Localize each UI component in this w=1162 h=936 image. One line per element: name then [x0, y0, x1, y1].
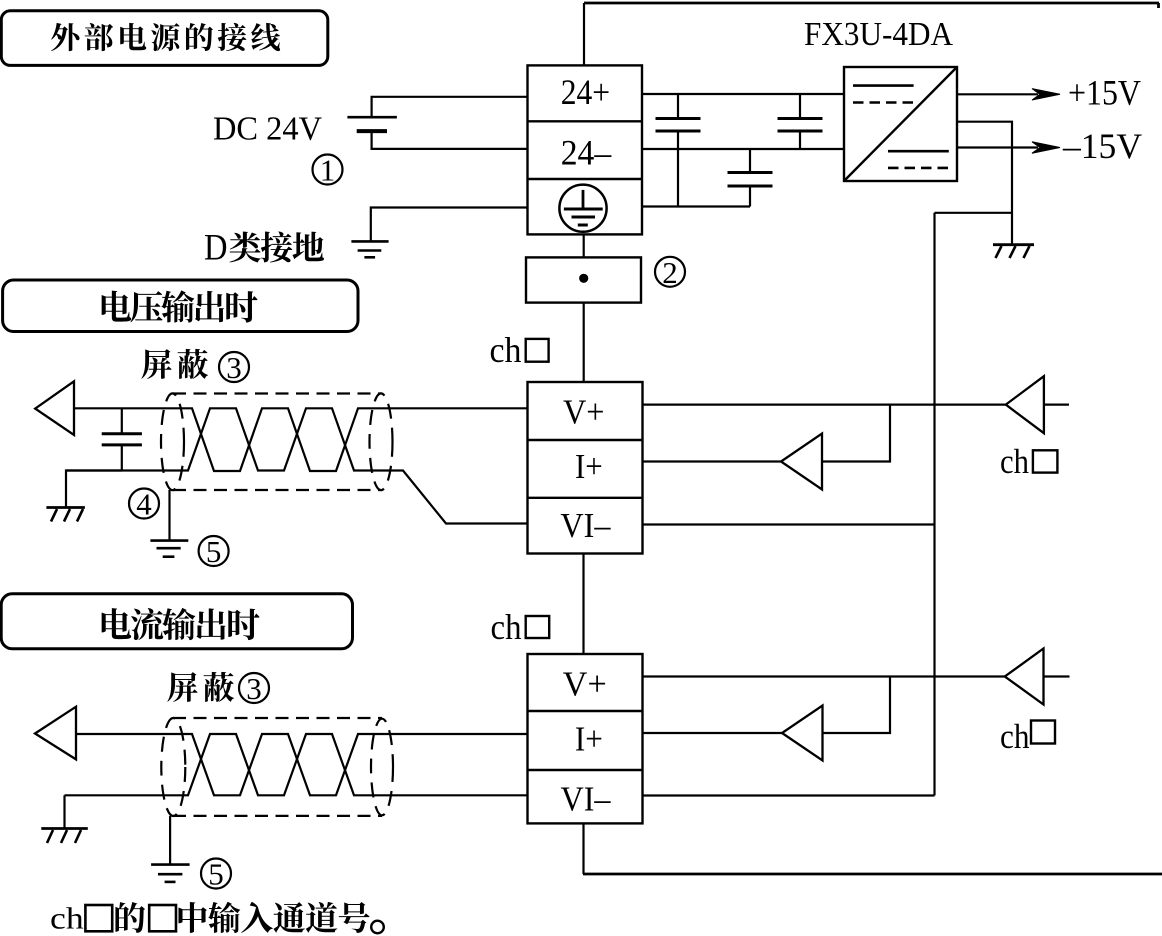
wire VI- to analog ground bus top section	[643, 523, 935, 525]
circled 2	[655, 257, 685, 287]
svg-text:24–: 24–	[561, 133, 612, 173]
capacitor C4 bottom lead	[121, 445, 123, 471]
title box 电压输出时 (voltage output)	[3, 280, 358, 332]
ground symbol GND-D line2	[358, 249, 382, 252]
svg-text:5: 5	[208, 857, 224, 892]
svg-text:DC 24V: DC 24V	[213, 111, 322, 148]
wire VI- to analog ground bus bottom section	[643, 794, 935, 796]
amplifier A3 triangle	[781, 434, 822, 490]
earth ground E1 line1	[150, 539, 188, 542]
footnote square 1	[85, 905, 112, 931]
svg-text:3: 3	[246, 671, 262, 706]
arrowhead -15V	[1032, 142, 1060, 153]
wire 24- to converter	[642, 148, 844, 150]
svg-text:I+: I+	[575, 721, 603, 759]
svg-text:ch: ch	[490, 330, 522, 370]
output terminal block 1 outline	[528, 382, 643, 554]
amplifier A5 input stub	[1044, 675, 1070, 677]
chassis ground symbol CG2 hatch2	[64, 509, 70, 522]
square box ch2	[1033, 450, 1058, 472]
output terminal block 2 outline	[528, 654, 643, 823]
footnote square 2	[149, 905, 176, 931]
svg-text:1: 1	[320, 153, 336, 188]
capacitor C1 plate1	[656, 117, 701, 120]
svg-text:ch: ch	[1000, 717, 1030, 756]
shield cable S2 dashed top	[173, 717, 382, 719]
DC/DC converter U1 output dashed line	[888, 167, 949, 170]
svg-text:D: D	[204, 227, 228, 268]
amplifier A2 triangle	[1006, 376, 1044, 433]
DC/DC converter U1 box	[844, 67, 957, 181]
wire V+ to ch amplifier top	[643, 404, 1006, 406]
capacitor C2 plate1	[778, 117, 823, 120]
shield cable S1 left ellipse	[161, 393, 184, 490]
amplifier A1 triangle	[35, 381, 74, 435]
title box 外部电源的接线 (external power wiring)	[1, 11, 328, 66]
svg-text:VI–: VI–	[560, 507, 611, 545]
label 电流输出时	[102, 608, 260, 640]
label 屏蔽 (shield) top	[141, 349, 208, 379]
svg-text:ch: ch	[1000, 442, 1029, 481]
block2 divider 1	[528, 710, 643, 712]
footnote 中输入通道号	[178, 902, 369, 933]
svg-text:5: 5	[206, 534, 222, 569]
wire ground terminal to earth	[371, 208, 528, 242]
chassis ground symbol CG1 hatch2	[1010, 246, 1016, 258]
amplifier A5 triangle	[1005, 649, 1044, 705]
svg-text:4: 4	[136, 487, 152, 522]
wire battery- to 24- terminal	[372, 131, 528, 149]
chassis ground symbol CG3 bar	[41, 827, 88, 830]
wire shield drain to chassis ground	[66, 471, 122, 508]
block2 divider 2	[528, 769, 643, 771]
wire +15V output	[957, 93, 1038, 95]
label 外部电源的接线	[51, 23, 280, 51]
svg-text:ch: ch	[491, 607, 522, 647]
DC/DC converter U1 input dashed line	[853, 101, 914, 104]
circled 4	[129, 489, 159, 519]
chassis ground symbol CG3 hatch1	[47, 830, 53, 843]
wire block1 to block2	[582, 554, 584, 656]
svg-text:VI–: VI–	[561, 781, 612, 819]
svg-text:V+: V+	[563, 394, 605, 432]
wire shield to earth ground top section	[168, 490, 170, 540]
FX3U-4DA module frame top edge	[584, 2, 1159, 5]
block1 divider 1	[528, 439, 643, 441]
circled 5 top	[199, 536, 229, 566]
ground symbol GND-D line1	[351, 240, 388, 243]
shield cable S1 right ellipse	[370, 393, 393, 490]
wire frame to 24+ block top	[583, 3, 585, 65]
DC/DC converter U1 diagonal	[844, 67, 957, 181]
protective earth terminal symbol circle	[559, 185, 606, 232]
amplifier A6 triangle	[782, 706, 823, 761]
filter box dot	[579, 274, 588, 283]
chassis ground symbol CG1 bar	[993, 243, 1034, 246]
capacitor C3 plate2	[728, 185, 773, 188]
wire block2 to frame bottom	[582, 823, 584, 874]
wire to chassis ground bottom section	[63, 795, 65, 828]
protective earth symbol bar1	[564, 208, 603, 211]
earth ground E2 line2	[158, 873, 182, 876]
footnote full stop	[371, 921, 384, 934]
DC/DC converter U1 output solid line	[888, 150, 949, 153]
analog ground bus vertical	[933, 213, 935, 796]
circled 3 bottom	[239, 673, 269, 703]
chassis ground symbol CG3 hatch3	[75, 830, 81, 843]
earth ground E1 line2	[157, 547, 181, 550]
svg-text:24+: 24+	[561, 72, 610, 112]
shield cable S1 dashed top	[173, 392, 381, 394]
wire shield to earth ground bottom section	[169, 816, 171, 864]
footnote 的	[115, 902, 145, 933]
capacitor C1 bottom lead	[677, 131, 679, 207]
svg-text:–15V: –15V	[1062, 126, 1142, 166]
twisted pair wire A bottom section	[76, 734, 528, 795]
capacitor C2 bottom lead	[799, 131, 801, 149]
filter box	[526, 257, 641, 302]
title box 电流输出时 (current output)	[1, 594, 352, 649]
wire converter to chassis ground	[957, 122, 1012, 245]
wire 24+ to converter	[642, 93, 844, 95]
svg-text:3: 3	[226, 350, 242, 385]
shield cable S2 right ellipse	[371, 719, 393, 816]
wire analog ground bus tap	[935, 212, 1013, 214]
chassis ground symbol CG2 hatch3	[77, 509, 83, 522]
svg-text:+15V: +15V	[1068, 73, 1141, 113]
wire filter box to ch block	[583, 303, 585, 382]
twisted pair wire B top section	[66, 408, 528, 523]
protective earth symbol stem	[582, 190, 585, 209]
shield cable S2 left ellipse	[161, 718, 185, 816]
wire I+ to amplifier A3	[643, 460, 782, 462]
wire V+ branch to I+ amplifier	[822, 405, 890, 462]
earth ground E2 line3	[165, 881, 176, 884]
circled 3 top	[219, 352, 249, 382]
battery B1 positive plate	[347, 116, 397, 119]
shield cable S2 dashed bottom	[173, 815, 382, 817]
wire V+ branch to I+ amplifier bottom	[823, 677, 891, 734]
capacitor C2 top lead	[799, 94, 801, 118]
capacitor C2 plate2	[778, 130, 823, 133]
circled 5 bottom	[201, 859, 231, 889]
square box ch4	[1031, 721, 1055, 744]
wire -15V output	[957, 146, 1038, 148]
capacitor C3 bottom lead	[749, 186, 751, 207]
block1 divider 2	[528, 497, 643, 499]
wire battery+ to 24+ terminal	[372, 97, 528, 117]
chassis ground symbol CG1 hatch3	[1024, 246, 1030, 258]
twisted pair wire A top section	[74, 408, 528, 471]
power terminal divider 1	[528, 120, 643, 122]
protective earth symbol bar3	[578, 224, 588, 227]
twisted pair wire B bottom section	[65, 734, 528, 795]
svg-text:FX3U-4DA: FX3U-4DA	[804, 16, 953, 53]
power terminal divider 2	[528, 178, 643, 180]
chassis ground symbol CG2 bar	[46, 506, 85, 509]
chassis ground symbol CG3 hatch2	[61, 830, 67, 843]
svg-text:2: 2	[662, 255, 678, 290]
square box ch3	[526, 616, 550, 638]
protective earth symbol bar2	[572, 216, 596, 219]
chassis ground symbol CG1 hatch1	[996, 246, 1002, 258]
label 电压输出时	[102, 290, 258, 322]
capacitor C3 plate1	[728, 171, 773, 174]
amplifier A4 triangle	[35, 707, 76, 760]
capacitor C4 top lead	[121, 408, 123, 433]
svg-text:I+: I+	[575, 448, 603, 486]
wire V+ to ch amplifier bottom	[643, 675, 1005, 677]
shield cable S1 dashed bottom	[173, 489, 381, 491]
circled 1	[313, 155, 343, 185]
DC/DC converter U1 input solid line	[853, 84, 914, 87]
earth ground E1 line3	[163, 555, 175, 558]
ground symbol GND-D line3	[364, 256, 375, 259]
capacitor C1 top lead	[677, 94, 679, 118]
capacitor C4 plate1	[102, 432, 142, 435]
earth ground E2 line1	[151, 863, 190, 866]
capacitor C1 plate2	[656, 130, 701, 133]
svg-text:V+: V+	[563, 666, 607, 704]
wire PE terminal to filter box	[583, 234, 585, 257]
arrowhead +15V	[1032, 89, 1060, 100]
amplifier A2 input stub	[1044, 404, 1069, 406]
wire ground bus right	[642, 205, 750, 207]
label 屏蔽 (shield) bottom	[167, 672, 234, 702]
chassis ground symbol CG2 hatch1	[51, 509, 57, 522]
capacitor C3 top lead	[749, 149, 751, 172]
square box ch1	[526, 339, 549, 362]
battery B1 negative plate	[357, 129, 387, 133]
wire I+ to amplifier A6	[643, 732, 783, 734]
power terminal block outline	[528, 65, 643, 234]
svg-text:ch: ch	[50, 902, 84, 936]
capacitor C4 plate2	[102, 443, 142, 446]
FX3U-4DA module frame bottom edge	[583, 873, 1162, 876]
